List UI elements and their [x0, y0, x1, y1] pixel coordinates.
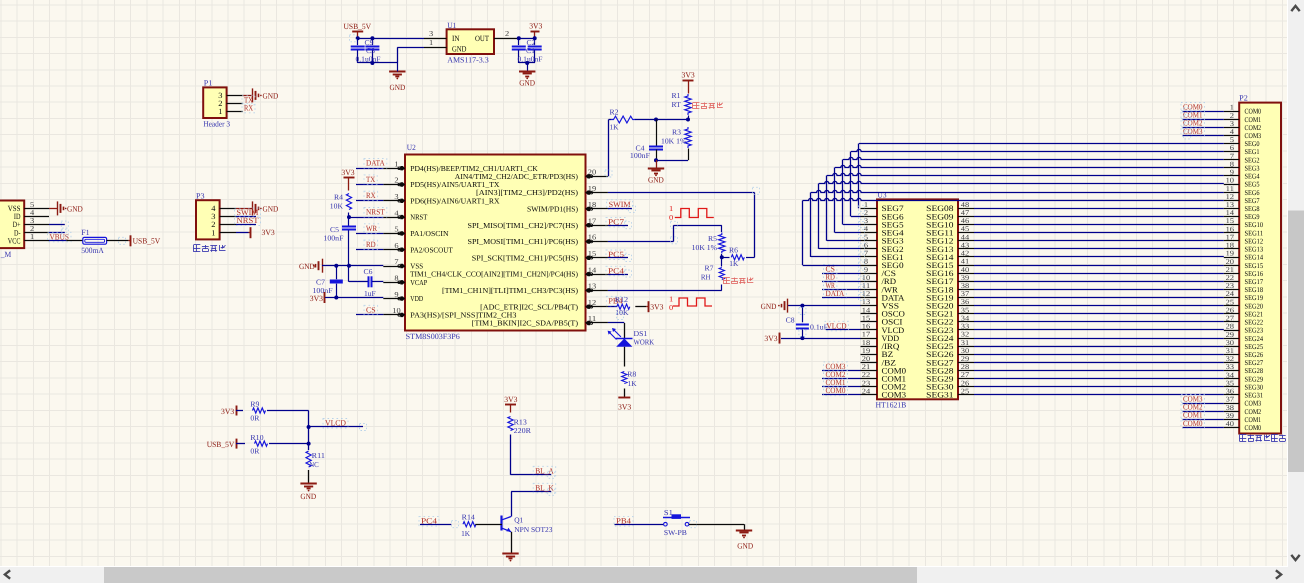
svg-text:10K 1%: 10K 1% [661, 137, 686, 146]
svg-text:13: 13 [1226, 201, 1235, 209]
svg-text:COM0: COM0 [1245, 424, 1262, 432]
svg-text:F1: F1 [81, 228, 89, 237]
svg-text:11: 11 [588, 314, 597, 323]
svg-text:21: 21 [862, 363, 871, 371]
svg-text:R12: R12 [615, 295, 628, 304]
svg-text:1: 1 [211, 228, 215, 237]
svg-text:S1: S1 [664, 508, 673, 517]
svg-text:26: 26 [1226, 307, 1235, 315]
svg-text:8: 8 [1230, 161, 1235, 169]
svg-text:R6: R6 [729, 246, 738, 255]
svg-text:39: 39 [961, 274, 970, 282]
svg-text:3V3: 3V3 [682, 71, 695, 80]
svg-text:P2: P2 [1239, 94, 1248, 103]
svg-text:45: 45 [961, 225, 970, 233]
svg-text:3V3: 3V3 [262, 228, 275, 237]
svg-text:NRST: NRST [366, 208, 385, 217]
svg-text:SEG13: SEG13 [1245, 246, 1264, 254]
svg-text:R4: R4 [334, 192, 343, 201]
svg-text:16: 16 [588, 233, 597, 242]
svg-text:48: 48 [961, 201, 970, 209]
svg-text:GND: GND [263, 205, 279, 214]
svg-text:3: 3 [1230, 120, 1235, 128]
svg-text:COM3: COM3 [1183, 127, 1203, 136]
svg-text:SEG6: SEG6 [1245, 189, 1260, 197]
svg-text:VCC: VCC [8, 236, 21, 245]
svg-text:R10: R10 [250, 433, 263, 442]
svg-text:DATA: DATA [826, 289, 845, 298]
svg-text:1: 1 [30, 232, 34, 241]
svg-text:28: 28 [1226, 323, 1235, 331]
svg-text:1: 1 [669, 204, 673, 213]
svg-text:SPI_SCK[TIM2_CH1]/PC5(HS): SPI_SCK[TIM2_CH1]/PC5(HS) [472, 253, 579, 262]
svg-text:C1: C1 [526, 46, 535, 55]
svg-text:WR: WR [366, 224, 378, 233]
svg-text:R14: R14 [462, 513, 475, 522]
svg-text:PA1/OSCIN: PA1/OSCIN [410, 229, 449, 238]
svg-text:COM1: COM1 [1245, 416, 1262, 424]
svg-text:38: 38 [961, 282, 970, 290]
svg-text:TX: TX [366, 175, 375, 184]
svg-text:SEG15: SEG15 [1245, 262, 1264, 270]
svg-text:COM1: COM1 [1245, 116, 1262, 124]
svg-text:GND: GND [452, 45, 467, 54]
svg-text:SEG0: SEG0 [1245, 140, 1260, 148]
svg-text:R3: R3 [672, 128, 681, 137]
svg-text:3V3: 3V3 [529, 22, 542, 31]
svg-text:17: 17 [1226, 234, 1235, 242]
svg-text:10K 1%: 10K 1% [692, 243, 717, 252]
svg-text:500mA: 500mA [81, 246, 104, 255]
svg-text:13: 13 [588, 282, 597, 291]
svg-text:20: 20 [1226, 258, 1235, 266]
svg-text:5: 5 [394, 225, 398, 234]
svg-text:COM3: COM3 [1245, 132, 1262, 140]
svg-text:100nF: 100nF [323, 234, 343, 243]
svg-text:R9: R9 [250, 400, 259, 409]
svg-text:17: 17 [588, 216, 597, 225]
svg-text:3V3: 3V3 [650, 303, 663, 312]
svg-text:GND: GND [761, 302, 777, 311]
svg-text:18: 18 [1226, 242, 1235, 250]
svg-text:STM8S003F3P6: STM8S003F3P6 [406, 332, 460, 341]
svg-text:5: 5 [1230, 136, 1235, 144]
svg-text:33: 33 [961, 323, 970, 331]
svg-text:COM2: COM2 [1245, 408, 1262, 416]
svg-text:8: 8 [394, 274, 398, 283]
svg-text:47: 47 [961, 209, 970, 217]
svg-text:3V3: 3V3 [504, 395, 517, 404]
svg-text:14: 14 [862, 306, 871, 314]
svg-text:SEG11: SEG11 [1245, 229, 1264, 237]
svg-text:21: 21 [1226, 266, 1235, 274]
svg-text:VLCD: VLCD [827, 321, 847, 330]
svg-text:0: 0 [669, 303, 673, 312]
svg-text:[AIN3][TIM2_CH3]/PD2(HS): [AIN3][TIM2_CH3]/PD2(HS) [476, 188, 579, 197]
svg-text:2: 2 [394, 176, 398, 185]
svg-text:10K: 10K [330, 201, 344, 210]
svg-text:SEG4: SEG4 [1245, 173, 1260, 181]
svg-text:R11: R11 [312, 451, 325, 460]
svg-text:220R: 220R [514, 426, 531, 435]
svg-text:GND: GND [299, 262, 315, 271]
svg-text:0.1u0nF: 0.1u0nF [518, 55, 543, 64]
svg-text:COM0: COM0 [826, 386, 846, 395]
svg-text:[TIM1_CH1N][TLI]TIM1_CH3/PC3(H: [TIM1_CH1N][TLI]TIM1_CH3/PC3(HS) [442, 286, 578, 295]
svg-text:SEG16: SEG16 [1245, 270, 1264, 278]
svg-text:40: 40 [1226, 420, 1235, 428]
svg-text:36: 36 [961, 298, 970, 306]
svg-text:SEG12: SEG12 [1245, 238, 1264, 246]
svg-text:1K: 1K [461, 529, 471, 538]
svg-text:3V3: 3V3 [764, 334, 777, 343]
svg-text:USB_5V: USB_5V [344, 22, 372, 31]
svg-text:OUT: OUT [475, 34, 489, 43]
svg-text:BL_A: BL_A [535, 466, 554, 475]
svg-text:SPI_MOSI[TIM1_CH1]/PC6(HS): SPI_MOSI[TIM1_CH1]/PC6(HS) [468, 237, 579, 246]
svg-text:COM3: COM3 [882, 391, 907, 400]
svg-text:COM0: COM0 [1183, 419, 1203, 428]
svg-text:1: 1 [218, 107, 222, 116]
svg-text:[ADC_ETR]I2C_SCL/PB4(T): [ADC_ETR]I2C_SCL/PB4(T) [480, 302, 578, 311]
svg-text:NRST: NRST [237, 216, 259, 225]
svg-text:27: 27 [1226, 315, 1235, 323]
svg-text:25: 25 [1226, 298, 1235, 306]
svg-text:46: 46 [961, 217, 970, 225]
svg-text:AMS117-3.3: AMS117-3.3 [447, 56, 489, 65]
svg-text:VDD: VDD [410, 294, 423, 303]
svg-text:P3: P3 [196, 192, 205, 201]
svg-text:16: 16 [862, 323, 871, 331]
svg-text:SEG2: SEG2 [1245, 156, 1260, 164]
svg-text:C3: C3 [366, 46, 375, 55]
svg-text:20: 20 [862, 355, 871, 363]
svg-text:43: 43 [961, 242, 970, 250]
svg-text:SEG31: SEG31 [1245, 392, 1264, 400]
svg-text:PD6(HS)/AIN6/UART1_RX: PD6(HS)/AIN6/UART1_RX [410, 196, 500, 205]
svg-text:HT1621B: HT1621B [876, 401, 907, 410]
svg-text:34: 34 [961, 314, 970, 322]
svg-text:32: 32 [961, 331, 970, 339]
svg-text:25: 25 [961, 387, 970, 395]
svg-text:RD: RD [366, 240, 376, 249]
svg-text:SEG3: SEG3 [1245, 165, 1260, 173]
svg-text:COM2: COM2 [1245, 124, 1262, 132]
svg-text:CS: CS [366, 305, 376, 314]
svg-text:1: 1 [429, 38, 433, 47]
svg-text:6: 6 [394, 241, 398, 250]
svg-text:R5: R5 [708, 234, 717, 243]
svg-text:SEG27: SEG27 [1245, 359, 1264, 367]
svg-text:R2: R2 [610, 108, 619, 117]
svg-text:SEG14: SEG14 [1245, 254, 1264, 262]
svg-text:15: 15 [1226, 217, 1235, 225]
svg-text:15: 15 [588, 249, 597, 258]
svg-text:AIN4/TIM2_CH2/ADC_ETR/PD3(HS): AIN4/TIM2_CH2/ADC_ETR/PD3(HS) [455, 172, 579, 181]
svg-text:RH: RH [701, 273, 711, 282]
svg-text:32: 32 [1226, 355, 1235, 363]
svg-text:23: 23 [862, 379, 871, 387]
svg-text:DATA: DATA [366, 159, 385, 168]
svg-text:SEG5: SEG5 [1245, 181, 1260, 189]
svg-text:3V3: 3V3 [341, 168, 354, 177]
svg-text:33: 33 [1226, 363, 1235, 371]
svg-text:16: 16 [1226, 225, 1235, 233]
svg-text:22: 22 [1226, 274, 1235, 282]
svg-text:2: 2 [1230, 112, 1235, 120]
svg-text:24: 24 [862, 387, 871, 395]
svg-text:7: 7 [1230, 152, 1235, 160]
svg-text:PA2/OSCOUT: PA2/OSCOUT [410, 245, 453, 254]
svg-text:TIM1_CH4/CLK_CCO[AIN2][TIM1_CH: TIM1_CH4/CLK_CCO[AIN2][TIM1_CH2N]/PC4(HS… [410, 270, 578, 279]
svg-text:R1: R1 [672, 91, 681, 100]
svg-text:30: 30 [1226, 339, 1235, 347]
svg-text:26: 26 [961, 379, 970, 387]
svg-text:GND: GND [648, 175, 664, 184]
svg-text:14: 14 [1226, 209, 1235, 217]
svg-text:0.1u0nF: 0.1u0nF [356, 55, 381, 64]
svg-text:13: 13 [862, 298, 871, 306]
svg-text:USB_5V: USB_5V [133, 237, 161, 246]
svg-text:SPI_MISO[TIM1_CH2]/PC7(HS): SPI_MISO[TIM1_CH2]/PC7(HS) [468, 221, 579, 230]
svg-text:10: 10 [392, 306, 401, 315]
svg-text:4: 4 [1230, 128, 1235, 136]
svg-text:39: 39 [1226, 412, 1235, 420]
svg-text:34: 34 [1226, 371, 1235, 379]
svg-text:1: 1 [394, 159, 398, 168]
svg-text:GND: GND [737, 541, 753, 550]
svg-text:SEG22: SEG22 [1245, 319, 1264, 327]
svg-text:1K: 1K [628, 379, 638, 388]
svg-text:38: 38 [1226, 404, 1235, 412]
svg-text:[TIM1_BKIN]I2C_SDA/PB5(T): [TIM1_BKIN]I2C_SDA/PB5(T) [472, 319, 579, 328]
svg-text:4: 4 [394, 208, 398, 217]
svg-text:IN: IN [452, 34, 460, 43]
svg-text:1uF: 1uF [364, 289, 376, 298]
svg-text:SEG25: SEG25 [1245, 343, 1264, 351]
svg-text:18: 18 [588, 200, 597, 209]
svg-text:SEG9: SEG9 [1245, 213, 1260, 221]
svg-text:42: 42 [961, 250, 970, 258]
svg-text:22: 22 [862, 371, 871, 379]
svg-text:RX: RX [244, 103, 253, 112]
svg-text:SEG30: SEG30 [1245, 383, 1264, 391]
svg-text:R8: R8 [627, 370, 636, 379]
svg-text:VLCD: VLCD [325, 419, 346, 428]
svg-text:WORK: WORK [634, 338, 655, 347]
svg-text:2: 2 [505, 29, 509, 38]
svg-text:19: 19 [588, 184, 597, 193]
svg-text:GND: GND [519, 78, 535, 87]
svg-text:_M: _M [0, 250, 11, 259]
svg-text:GND: GND [263, 92, 279, 101]
svg-text:GND: GND [67, 205, 83, 214]
svg-text:0R: 0R [250, 447, 259, 456]
svg-text:RT: RT [672, 100, 682, 109]
svg-text:VBUS: VBUS [50, 232, 70, 241]
svg-text:SEG31: SEG31 [926, 391, 953, 400]
svg-text:NPN SOT23: NPN SOT23 [514, 525, 553, 534]
svg-text:36: 36 [1226, 388, 1235, 396]
svg-text:SEG8: SEG8 [1245, 205, 1260, 213]
svg-text:10: 10 [1226, 177, 1235, 185]
svg-text:0.1uF: 0.1uF [810, 323, 828, 332]
svg-text:GND: GND [300, 492, 316, 501]
svg-text:GND: GND [390, 83, 406, 92]
svg-text:3V3: 3V3 [618, 403, 631, 412]
svg-text:7: 7 [394, 257, 398, 266]
svg-text:17: 17 [862, 331, 871, 339]
svg-text:23: 23 [1226, 282, 1235, 290]
svg-text:11: 11 [1226, 185, 1235, 193]
svg-text:Header 3: Header 3 [203, 119, 230, 128]
svg-text:SEG10: SEG10 [1245, 221, 1264, 229]
svg-text:24: 24 [1226, 290, 1235, 298]
svg-text:29: 29 [961, 355, 970, 363]
svg-text:C6: C6 [364, 267, 373, 276]
svg-text:SEG26: SEG26 [1245, 351, 1264, 359]
svg-text:COM0: COM0 [1245, 108, 1262, 116]
svg-text:31: 31 [961, 339, 970, 347]
svg-text:37: 37 [961, 290, 970, 298]
svg-text:37: 37 [1226, 396, 1235, 404]
svg-text:NRST: NRST [410, 213, 427, 222]
svg-text:29: 29 [1226, 331, 1235, 339]
svg-text:0R: 0R [250, 414, 259, 423]
svg-text:12: 12 [588, 298, 597, 307]
svg-text:35: 35 [961, 306, 970, 314]
svg-text:35: 35 [1226, 379, 1235, 387]
svg-text:SEG18: SEG18 [1245, 286, 1264, 294]
svg-text:BL_K: BL_K [535, 483, 554, 492]
svg-text:6: 6 [1230, 144, 1235, 152]
svg-text:28: 28 [961, 363, 970, 371]
svg-text:44: 44 [961, 233, 970, 241]
svg-text:20: 20 [588, 168, 597, 177]
svg-text:SEG28: SEG28 [1245, 367, 1264, 375]
svg-text:1K: 1K [729, 259, 739, 268]
svg-text:18: 18 [862, 339, 871, 347]
svg-text:15: 15 [862, 314, 871, 322]
svg-text:12: 12 [1226, 193, 1235, 201]
svg-text:SEG7: SEG7 [1245, 197, 1260, 205]
svg-text:USB_5V: USB_5V [207, 440, 235, 449]
svg-text:SEG21: SEG21 [1245, 311, 1264, 319]
svg-text:P1: P1 [204, 79, 213, 88]
svg-text:COM3: COM3 [1245, 400, 1262, 408]
svg-text:9: 9 [394, 290, 398, 299]
svg-text:R7: R7 [705, 263, 714, 272]
svg-text:VCAP: VCAP [410, 278, 427, 287]
svg-text:SEG24: SEG24 [1245, 335, 1264, 343]
svg-text:9: 9 [1230, 169, 1235, 177]
svg-text:3V3: 3V3 [221, 407, 234, 416]
svg-text:SWIM: SWIM [609, 200, 631, 209]
svg-text:SWIM/PD1(HS): SWIM/PD1(HS) [527, 205, 578, 214]
svg-text:3: 3 [429, 29, 433, 38]
svg-text:100nF: 100nF [630, 151, 650, 160]
svg-text:SEG20: SEG20 [1245, 302, 1264, 310]
svg-text:3: 3 [394, 192, 398, 201]
svg-text:41: 41 [961, 258, 970, 266]
svg-text:SW-PB: SW-PB [664, 528, 687, 537]
svg-text:27: 27 [961, 371, 970, 379]
svg-text:14: 14 [588, 265, 597, 274]
svg-text:SEG29: SEG29 [1245, 375, 1264, 383]
svg-text:19: 19 [1226, 250, 1235, 258]
svg-text:Q1: Q1 [514, 516, 523, 525]
svg-text:SEG19: SEG19 [1245, 294, 1264, 302]
svg-text:40: 40 [961, 266, 970, 274]
svg-text:C8: C8 [786, 316, 795, 325]
svg-text:1: 1 [1230, 104, 1235, 112]
svg-text:1K: 1K [610, 123, 620, 132]
svg-text:SEG1: SEG1 [1245, 148, 1260, 156]
svg-text:0: 0 [669, 213, 673, 222]
svg-text:19: 19 [862, 347, 871, 355]
svg-text:SEG23: SEG23 [1245, 327, 1264, 335]
svg-text:31: 31 [1226, 347, 1235, 355]
svg-text:SEG17: SEG17 [1245, 278, 1264, 286]
svg-text:RX: RX [366, 191, 376, 200]
svg-text:3V3: 3V3 [310, 294, 323, 303]
svg-text:NC: NC [309, 460, 319, 469]
svg-text:U2: U2 [407, 143, 416, 152]
svg-text:30: 30 [961, 347, 970, 355]
